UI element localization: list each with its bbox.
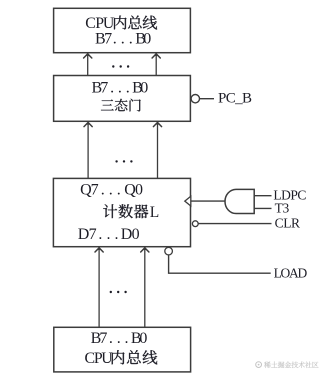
- watermark text 稀土掘金技术社区: [264, 361, 318, 367]
- wire AND input T3: [254, 207, 271, 209]
- wire/arrow counter to tri-state gate (left): [84, 122, 92, 178]
- label CPU内总线 (bottom box): [85, 350, 158, 367]
- wire/arrow tri-state gate to top bus (left): [84, 53, 92, 75]
- ellipsis dots (bus lines, bottom): [110, 291, 127, 293]
- wire/arrow bottom bus to counter (left): [95, 247, 103, 327]
- wire to PC_B label: [200, 98, 214, 100]
- svg-text:B7...B0: B7...B0: [92, 80, 149, 97]
- svg-text:LOAD: LOAD: [274, 266, 308, 281]
- label LOAD: [274, 266, 308, 281]
- label 计数器L: [103, 204, 159, 221]
- box: CPU internal bus (bottom): [54, 327, 191, 372]
- label LDPC: [273, 187, 306, 202]
- svg-text:D7...D0: D7...D0: [78, 226, 140, 243]
- svg-text:T3: T3: [275, 201, 290, 216]
- svg-text:L: L: [150, 204, 159, 221]
- bubble (active-low) LOAD on counter bottom: [165, 247, 173, 255]
- bubble (active-low) CLR on counter: [192, 221, 198, 227]
- label 三态门: [101, 99, 141, 112]
- label Q7...Q0: [80, 181, 143, 198]
- label PC_B: [218, 91, 252, 107]
- wire to CLR label: [198, 223, 271, 225]
- svg-text:B7...B0: B7...B0: [91, 330, 148, 347]
- label CPU内总线 (top box): [85, 15, 157, 32]
- label B7...B0 (bottom box): [91, 330, 148, 347]
- svg-text:CLR: CLR: [275, 216, 300, 231]
- box: tri-state gate 三态门: [54, 76, 191, 122]
- svg-text:PC_B: PC_B: [218, 91, 252, 107]
- wire/arrow counter to tri-state gate (right): [153, 122, 161, 178]
- box: counter 计数器L: [53, 178, 190, 246]
- wire AND gate output to counter: [191, 200, 225, 202]
- svg-text:Q7...Q0: Q7...Q0: [80, 181, 143, 198]
- svg-text:B7...B0: B7...B0: [95, 31, 151, 48]
- AND gate U1 (mirrored, output left): [225, 189, 254, 213]
- label D7...D0: [78, 226, 140, 243]
- ellipsis dots (bus lines, middle): [115, 160, 132, 162]
- watermark logo (juejin): [256, 362, 262, 368]
- label T3: [275, 201, 290, 216]
- open arrowhead into counter (load pulse): [185, 196, 191, 206]
- label CLR: [275, 216, 300, 231]
- wire to LOAD label: [169, 255, 271, 273]
- wire/arrow tri-state gate to top bus (right): [152, 53, 160, 75]
- wire AND input LDPC: [254, 195, 271, 197]
- svg-text:CPU: CPU: [85, 350, 114, 367]
- label B7...B0 (tri-state box): [92, 80, 149, 97]
- bubble (active-low) PC_B on tri-state gate: [191, 95, 199, 103]
- ellipsis dots (bus lines, top): [112, 65, 129, 67]
- wire/arrow bottom bus to counter (right): [141, 247, 149, 327]
- box: CPU internal bus (top): [54, 8, 191, 52]
- label B7...B0 (top box): [95, 31, 151, 48]
